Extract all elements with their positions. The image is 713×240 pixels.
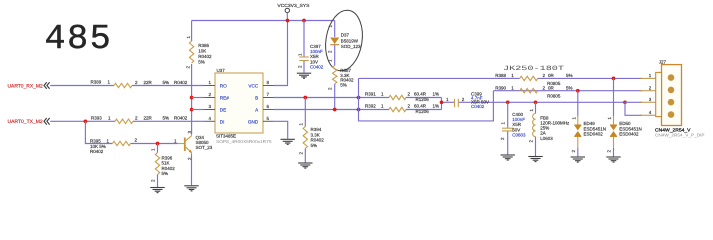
svg-text:C0402: C0402 [310, 65, 324, 70]
junction line3 / pin4 branch [623, 100, 627, 104]
svg-text:R0402: R0402 [311, 138, 325, 143]
pin 5 GND [263, 120, 274, 122]
svg-text:R396: R396 [162, 155, 173, 160]
junction B / R394 [303, 96, 307, 100]
ground ED49 [571, 157, 585, 162]
junction A / R387 [333, 108, 337, 112]
ferrite bead FB8 [535, 102, 537, 113]
junction TX / R395 [84, 119, 88, 123]
pin 3 DE [205, 109, 216, 111]
svg-text:5%: 5% [163, 116, 170, 121]
ground R396 [150, 188, 164, 193]
ellipse highlight around D37 [321, 8, 366, 74]
junction DE [190, 108, 194, 112]
svg-text:51K: 51K [162, 161, 170, 166]
svg-text:485: 485 [45, 19, 113, 59]
capacitor C397 [303, 21, 305, 57]
svg-text:1%: 1% [433, 104, 440, 109]
svg-text:DI: DI [220, 119, 225, 124]
wire GND pin to ground [274, 121, 288, 139]
svg-text:5%: 5% [162, 171, 169, 176]
svg-text:ESD0402: ESD0402 [619, 132, 639, 137]
svg-text:CN4W_2R54_V_P_DIP: CN4W_2R54_V_P_DIP [655, 133, 705, 138]
wire Q34 emitter to ground [191, 155, 193, 186]
resistor R389 [114, 83, 132, 87]
ESD diode ED50 [613, 78, 615, 116]
op-amp U37 SIT3485E body [215, 73, 263, 133]
svg-text:L0603: L0603 [540, 136, 553, 141]
ground U37 GND [281, 139, 295, 144]
ground ED50 [606, 157, 620, 162]
svg-text:U37: U37 [217, 68, 226, 73]
pin 2 RE# [205, 97, 216, 99]
resistor R394 [304, 98, 306, 127]
junction B / line1 vertical [357, 96, 361, 100]
svg-text:5%: 5% [198, 60, 205, 65]
resistor R396 [157, 144, 159, 153]
junction A / line1 vertical [357, 108, 361, 112]
resistor R388 [520, 76, 538, 80]
svg-text:R1206: R1206 [416, 97, 430, 102]
connector J27 body [662, 65, 682, 126]
junction RE# [190, 96, 194, 100]
resistor R395 [113, 141, 131, 145]
svg-text:5%: 5% [340, 82, 347, 87]
diode D37 B5819W [334, 21, 336, 38]
svg-text:5%: 5% [163, 80, 170, 85]
svg-text:1%: 1% [433, 92, 440, 97]
capacitor C399 [454, 99, 456, 108]
svg-text:0R: 0R [548, 86, 555, 91]
svg-text:22R: 22R [144, 116, 153, 121]
junction line1 / ED50 [612, 77, 616, 81]
wire TX [50, 120, 115, 122]
svg-text:R0402: R0402 [174, 116, 188, 121]
svg-text:UART0_TX_M2: UART0_TX_M2 [8, 119, 43, 125]
svg-text:VCC: VCC [248, 83, 259, 88]
wire line2 (connector pin2) [493, 90, 642, 92]
junction top rail / VCC [286, 19, 290, 23]
svg-text:D37: D37 [341, 33, 350, 38]
resistor R386 [189, 41, 193, 63]
resistor R393 [115, 119, 133, 123]
svg-text:SOD_123: SOD_123 [341, 44, 361, 49]
ESD diode ED49 [577, 91, 579, 116]
svg-text:3.3K: 3.3K [311, 132, 320, 137]
wire line1 (connector pin1) [359, 77, 520, 79]
ground Q34 [184, 186, 198, 191]
svg-text:R389: R389 [91, 80, 102, 85]
connector J27 pin stubs [640, 77, 657, 79]
wire RX [50, 85, 114, 87]
svg-text:RO: RO [220, 83, 227, 88]
resistor R391 [389, 95, 406, 99]
resistor R387 [334, 45, 336, 66]
svg-text:UART0_RX_M2: UART0_RX_M2 [8, 83, 43, 89]
svg-text:B5819W: B5819W [341, 38, 359, 43]
svg-text:JK250-180T: JK250-180T [503, 65, 564, 72]
ground FB8 [528, 157, 542, 162]
pin 6 A [263, 109, 274, 111]
svg-text:R390: R390 [495, 86, 506, 91]
svg-text:J27: J27 [659, 60, 667, 65]
wire VCC pin8 vertical [274, 21, 288, 86]
pin 1 RO [205, 85, 216, 87]
power symbol VCC3V3_SYS [285, 8, 289, 12]
wire TX to R395 branch [85, 121, 112, 143]
wire pin4 branch [625, 102, 642, 115]
svg-text:60.4R: 60.4R [414, 104, 427, 109]
svg-text:R395: R395 [90, 138, 101, 143]
junction line2 / ED49 [576, 89, 580, 93]
svg-text:VCC3V3_SYS: VCC3V3_SYS [277, 3, 309, 8]
pin 4 DI [205, 120, 216, 122]
svg-text:C0603: C0603 [512, 133, 526, 138]
svg-text:60.4R: 60.4R [414, 92, 427, 97]
junction line3 / FB8 [534, 100, 538, 104]
wire R391/R392 to C399 [441, 98, 443, 103]
svg-text:SOP8_4R00X5R00x1R75: SOP8_4R00X5R00x1R75 [216, 139, 272, 144]
wire RE# stub [192, 97, 205, 99]
transistor Q34 S8050 [178, 143, 185, 145]
junction line3 / C400 [506, 100, 510, 104]
svg-text:5%: 5% [311, 143, 318, 148]
resistor R392 [389, 107, 406, 111]
wire A net [274, 109, 390, 111]
capacitor C400 [507, 102, 509, 127]
svg-text:RE#: RE# [220, 95, 230, 100]
svg-text:DE: DE [220, 107, 227, 112]
svg-text:GND: GND [248, 119, 259, 124]
wire top rail [192, 20, 335, 22]
svg-text:R391: R391 [365, 91, 376, 96]
junction C399 input [440, 100, 444, 104]
svg-text:0R: 0R [548, 73, 555, 78]
wire vertical line1 to bottom rail [359, 78, 494, 121]
svg-text:R392: R392 [365, 103, 376, 108]
pin 7 B [263, 97, 274, 99]
svg-text:R0402: R0402 [198, 54, 212, 59]
svg-text:C0402: C0402 [471, 104, 485, 109]
ground C397 [297, 73, 311, 78]
junction R395 / R396 [156, 142, 160, 146]
svg-text:R394: R394 [311, 127, 322, 132]
svg-text:R0402: R0402 [162, 166, 176, 171]
svg-text:ESD0402: ESD0402 [584, 132, 604, 137]
svg-text:22R: 22R [144, 80, 153, 85]
svg-text:5%: 5% [566, 73, 573, 78]
svg-text:B: B [255, 95, 258, 100]
svg-text:SOT_23: SOT_23 [196, 145, 213, 150]
svg-text:R1206: R1206 [416, 109, 430, 114]
ground R394 [298, 163, 312, 168]
wire DE stub [192, 109, 205, 111]
svg-text:R0805: R0805 [547, 94, 561, 99]
svg-text:R393: R393 [91, 115, 102, 120]
svg-text:R0402: R0402 [174, 80, 188, 85]
svg-text:10K: 10K [198, 49, 206, 54]
junction top rail / C397 [302, 19, 306, 23]
svg-text:5%: 5% [566, 86, 573, 91]
wire B net [274, 97, 390, 99]
ground C400 [501, 155, 515, 160]
wire line3 to pin3 [625, 101, 642, 103]
resistor R390 [520, 89, 538, 93]
svg-text:R386: R386 [198, 43, 209, 48]
svg-text:R0402: R0402 [90, 149, 104, 154]
wire R386 vertical from rail to Q34 collector [191, 21, 193, 42]
pin 8 VCC [263, 85, 274, 87]
svg-text:R388: R388 [495, 73, 506, 78]
